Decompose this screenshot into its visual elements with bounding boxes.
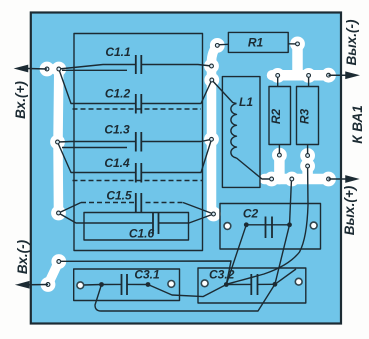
- pad C1.2 L1 right: [204, 73, 219, 88]
- inductor L1 coil and leads: [212, 80, 237, 104]
- pad R1 right: [290, 37, 305, 52]
- wire C2 right to C3.2 right: [275, 225, 290, 284]
- node C3.1 left: [99, 282, 104, 287]
- svg-text:L1: L1: [239, 95, 253, 109]
- wire hole to C3.1: [84, 284, 102, 287]
- hole C3.1 left: [77, 282, 84, 289]
- svg-text:К ВА1: К ВА1: [350, 105, 365, 144]
- svg-text:C2: C2: [243, 207, 259, 221]
- capacitor C1.5 plates: [136, 193, 142, 213]
- labels components: [104, 36, 311, 282]
- component thin outlines: [58, 32, 321, 311]
- svg-text:Вх.(+): Вх.(+): [13, 81, 28, 119]
- board outline: [31, 13, 341, 324]
- capacitor C2 lead and bars: [247, 224, 290, 226]
- svg-text:Вх.(-): Вх.(-): [15, 239, 30, 274]
- capacitor C3.2 box: [198, 268, 306, 303]
- wire left input bus (copper trace): [47, 69, 59, 213]
- wire C3.2 right up: [275, 269, 296, 284]
- node C3.1 right: [146, 282, 151, 287]
- node C3.2 left: [224, 282, 229, 287]
- svg-text:Вых.(-): Вых.(-): [344, 19, 359, 66]
- capacitor C1.4 plates: [136, 163, 142, 183]
- pad C1.3 C1.4 left: [50, 135, 65, 150]
- hole C3.1 right: [168, 281, 175, 288]
- svg-text:Вых.(+): Вых.(+): [342, 185, 357, 235]
- capacitor C1.5 leads: [59, 203, 214, 215]
- hole C3.2 right: [295, 278, 302, 285]
- svg-text:C1.1: C1.1: [105, 45, 131, 59]
- pad C1.3 C1.4 right: [204, 132, 219, 147]
- hole C2 right: [310, 222, 317, 229]
- capacitor C3.1 leads and bars: [102, 284, 227, 296]
- capacitor C3.2 leads and bars: [226, 283, 275, 285]
- wire left bottom S trace: [48, 262, 59, 285]
- pad R2 bottom: [272, 148, 287, 163]
- capacitor C1.1 plates: [136, 55, 142, 74]
- pad R3 to C3.2: [300, 159, 315, 174]
- svg-text:R2: R2: [269, 109, 283, 125]
- node C2 right: [287, 222, 292, 227]
- capacitor C1.4 leads: [58, 139, 212, 172]
- svg-text:R1: R1: [248, 36, 264, 50]
- arrows: [17, 66, 358, 288]
- wire R3 pad to C3.2 hole: [228, 166, 308, 284]
- hole C2 left: [224, 223, 231, 230]
- capacitor bank box: [74, 34, 203, 251]
- node C3.2 right: [273, 282, 278, 287]
- wire lower bypass: [95, 284, 275, 311]
- pad C1.1 C1.2 left: [51, 62, 66, 77]
- pad C2 right: [284, 172, 299, 187]
- wire input to C3.2: [59, 261, 231, 285]
- pad C1.5 C1.6 right: [206, 207, 221, 222]
- svg-text:C1.3: C1.3: [104, 123, 130, 137]
- pad output plus: [321, 172, 336, 187]
- capacitor C1.6 box and leads: [84, 213, 189, 241]
- node C2 left: [244, 222, 249, 227]
- wire bottom bar with stubs: [265, 155, 331, 179]
- capacitor C1.1 leads: [59, 65, 212, 70]
- capacitor C2 box: [220, 204, 321, 250]
- pad C1.1 right: [204, 59, 219, 74]
- arrow input minus: [29, 284, 48, 286]
- resistor R3: [297, 87, 319, 145]
- pad drill holes: [45, 42, 330, 286]
- pad R1 left: [210, 38, 225, 53]
- pad R2 top: [270, 68, 285, 83]
- inductor L1 box: [222, 77, 260, 188]
- svg-text:C3.2: C3.2: [209, 268, 235, 282]
- svg-text:C1.5: C1.5: [106, 189, 132, 203]
- svg-text:R3: R3: [297, 109, 311, 125]
- wire top bar pad to C2: [290, 179, 292, 225]
- capacitor C1.6 plates: [153, 213, 159, 235]
- pad output minus: [321, 68, 336, 83]
- capacitor C1.2 plates: [136, 94, 142, 114]
- pad R3 bottom: [300, 148, 315, 163]
- pad R3 top: [301, 68, 316, 83]
- capacitor C3.1 box: [74, 269, 180, 301]
- wire R1 to top bar: [272, 44, 330, 75]
- resistor R2: [269, 87, 291, 145]
- pad C1.5 C1.6 left: [51, 206, 66, 221]
- resistor R1: [228, 32, 288, 52]
- pad input plus terminal: [40, 62, 55, 77]
- svg-text:C1.4: C1.4: [104, 156, 130, 170]
- capacitor C1.2 leads: [59, 69, 212, 104]
- pad input minus terminal: [41, 277, 56, 292]
- wire right vertical bus: [212, 45, 218, 214]
- svg-text:C1.2: C1.2: [105, 87, 131, 101]
- hole C3.2 left: [201, 280, 208, 287]
- pad input minus upper: [51, 254, 66, 269]
- capacitor C1.3 plates: [136, 132, 142, 152]
- pad L1 bottom: [264, 172, 279, 187]
- svg-text:C1.6: C1.6: [129, 227, 155, 241]
- arrow input plus: [28, 68, 47, 71]
- capacitor C1.3 leads: [58, 139, 212, 142]
- labels terminals: [13, 19, 365, 274]
- wire C2 left to C3.2: [226, 225, 246, 285]
- svg-text:C3.1: C3.1: [134, 268, 160, 282]
- arrow output plus: [329, 178, 347, 180]
- arrow output minus: [329, 74, 347, 76]
